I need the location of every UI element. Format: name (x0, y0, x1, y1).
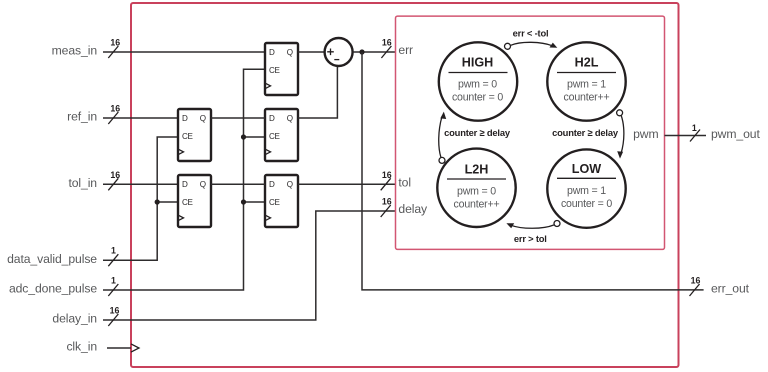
svg-text:err: err (398, 43, 413, 57)
flip-flop FF2 ref_in capture (178, 109, 211, 161)
wire ref_in (103, 117, 178, 119)
junction dot err (359, 49, 364, 54)
port slash err_out (690, 284, 700, 296)
wire tol_in (103, 183, 178, 185)
wire adc to FF_C CE (244, 136, 266, 138)
svg-text:adc_done_pulse: adc_done_pulse (9, 282, 97, 296)
wire adc_done_pulse (103, 69, 265, 290)
svg-text:counter ≥ delay: counter ≥ delay (552, 127, 619, 138)
svg-text:CE: CE (269, 132, 281, 141)
svg-text:16: 16 (382, 38, 392, 48)
svg-text:CE: CE (269, 198, 281, 207)
outer module border (131, 3, 679, 367)
svg-text:tol_in: tol_in (68, 176, 97, 190)
wire clk_in (107, 347, 131, 349)
bus slash delay (381, 205, 391, 217)
subtractor U1 (325, 38, 353, 66)
wire FF4 Q to FF5 D (211, 183, 265, 185)
svg-text:LOW: LOW (572, 162, 601, 176)
svg-text:H2L: H2L (575, 56, 599, 70)
wire meas_in (103, 51, 265, 53)
junction dot adc/FF_C CE (241, 134, 246, 139)
svg-text:D: D (182, 114, 188, 123)
state L2H (437, 149, 515, 227)
svg-text:D: D (269, 48, 275, 57)
svg-text:D: D (269, 114, 275, 123)
port slash delay_in (108, 314, 118, 326)
svg-text:pwm_out: pwm_out (711, 127, 760, 141)
transition L2H to HIGH (439, 112, 511, 164)
wire err branch down to err_out (362, 52, 704, 290)
state HIGH (439, 42, 517, 120)
svg-text:tol: tol (398, 176, 411, 190)
svg-text:1: 1 (692, 123, 697, 133)
wire FF1 Q to subtractor (298, 51, 325, 53)
svg-text:pwm = 1: pwm = 1 (567, 185, 606, 197)
port slash meas_in (108, 46, 118, 58)
wire data_valid to FF_D CE (157, 201, 178, 203)
svg-text:counter = 0: counter = 0 (561, 198, 612, 210)
svg-text:err < -tol: err < -tol (513, 27, 549, 38)
port slash ref_in (108, 112, 118, 124)
port slash data_valid_pulse (108, 254, 118, 266)
svg-text:16: 16 (691, 275, 701, 285)
svg-text:16: 16 (110, 38, 120, 48)
svg-text:pwm: pwm (633, 127, 658, 141)
svg-text:Q: Q (200, 180, 206, 189)
svg-text:pwm = 0: pwm = 0 (457, 186, 496, 198)
svg-text:HIGH: HIGH (462, 56, 493, 70)
svg-text:1: 1 (111, 246, 116, 256)
svg-text:16: 16 (110, 306, 120, 316)
svg-text:L2H: L2H (465, 163, 489, 177)
svg-text:16: 16 (110, 170, 120, 180)
junction dot data_valid/FF_D CE (155, 199, 160, 204)
svg-text:1: 1 (111, 276, 116, 286)
svg-text:Q: Q (287, 180, 293, 189)
svg-text:Q: Q (200, 114, 206, 123)
transition H2L to LOW (552, 110, 624, 159)
flip-flop FF5 tol sync (265, 175, 298, 227)
svg-text:counter ≥ delay: counter ≥ delay (444, 127, 511, 138)
svg-text:clk_in: clk_in (66, 340, 97, 354)
inner state machine border (396, 16, 665, 249)
svg-text:16: 16 (382, 170, 392, 180)
svg-text:delay_in: delay_in (52, 312, 97, 326)
svg-text:CE: CE (269, 66, 281, 75)
state LOW (547, 149, 625, 227)
svg-text:CE: CE (182, 132, 194, 141)
wire FF2 Q to FF3 D (211, 117, 265, 119)
svg-text:meas_in: meas_in (52, 44, 97, 58)
svg-text:counter++: counter++ (564, 92, 610, 104)
wire FF3 Q to subtractor minus input (298, 66, 337, 118)
svg-text:data_valid_pulse: data_valid_pulse (7, 252, 97, 266)
svg-text:ref_in: ref_in (67, 110, 97, 124)
svg-text:Q: Q (287, 48, 293, 57)
wire data_valid_pulse (103, 137, 178, 260)
transition LOW to L2H (506, 221, 560, 244)
wire adc to FF_E CE (244, 201, 266, 203)
svg-text:counter = 0: counter = 0 (452, 92, 503, 104)
svg-text:delay: delay (398, 202, 428, 216)
svg-text:pwm = 1: pwm = 1 (567, 79, 606, 91)
wire pwm to pwm_out (665, 135, 707, 137)
svg-text:D: D (182, 180, 188, 189)
transition HIGH to H2L (505, 27, 558, 49)
clock arrow clk_in (131, 344, 139, 352)
svg-text:16: 16 (110, 104, 120, 114)
wire delay_in (103, 211, 396, 320)
port slash tol_in (108, 178, 118, 190)
svg-text:err > tol: err > tol (514, 233, 547, 244)
port slash pwm_out (690, 130, 700, 142)
svg-text:D: D (269, 180, 275, 189)
wire err: subtractor to state machine (353, 51, 396, 53)
state H2L (547, 42, 625, 120)
flip-flop FF4 tol_in capture (178, 175, 211, 227)
port slash adc_done_pulse (108, 284, 118, 296)
junction dot adc/FF_E CE (241, 199, 246, 204)
svg-text:pwm = 0: pwm = 0 (458, 79, 497, 91)
wire FF5 Q to tol port (298, 183, 396, 185)
flip-flop FF1 meas_in sync (265, 43, 298, 95)
bus slash tol (381, 178, 391, 190)
bus slash err (381, 46, 391, 58)
flip-flop FF3 ref sync (265, 109, 298, 161)
svg-text:Q: Q (287, 114, 293, 123)
svg-text:err_out: err_out (711, 282, 750, 296)
svg-text:counter++: counter++ (454, 199, 500, 211)
svg-text:16: 16 (382, 197, 392, 207)
svg-text:CE: CE (182, 198, 194, 207)
